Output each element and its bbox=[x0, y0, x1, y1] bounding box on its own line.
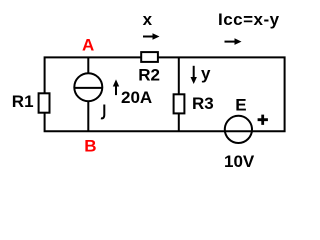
svg-text:E: E bbox=[235, 96, 246, 115]
svg-text:10V: 10V bbox=[224, 152, 255, 171]
svg-text:B: B bbox=[84, 137, 96, 156]
svg-text:R2: R2 bbox=[138, 66, 160, 85]
svg-text:R3: R3 bbox=[192, 94, 214, 113]
svg-text:R1: R1 bbox=[12, 92, 34, 111]
svg-text:x: x bbox=[143, 10, 153, 29]
svg-text:y: y bbox=[201, 64, 211, 83]
svg-text:A: A bbox=[82, 35, 94, 54]
svg-text:Icc=x-y: Icc=x-y bbox=[218, 10, 280, 29]
svg-text:20A: 20A bbox=[121, 88, 152, 107]
